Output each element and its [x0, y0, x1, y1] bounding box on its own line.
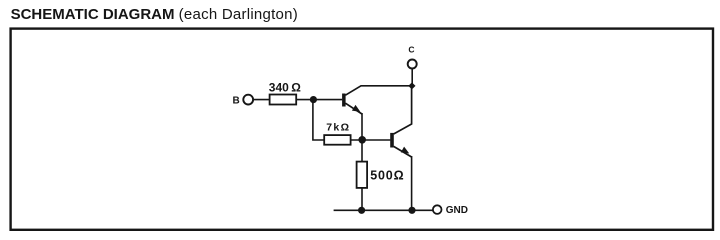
title SCHEMATIC DIAGRAM (each Darlington)	[11, 6, 298, 23]
wire resistor 340 to Q1 base	[296, 99, 342, 101]
transistor Q2 base bar	[390, 133, 394, 148]
label C	[408, 44, 414, 54]
svg-text:B: B	[233, 96, 240, 107]
node junction dot rail right	[408, 207, 415, 214]
node B terminal circle	[243, 95, 253, 105]
transistor Q1 base bar	[342, 94, 346, 107]
label 340 ohm value	[269, 81, 301, 95]
svg-text:340 Ω: 340 Ω	[269, 81, 301, 95]
label GND	[446, 205, 468, 216]
wire Q1 emitter down to 500 ohm	[361, 113, 363, 162]
transistor Q2 collector arm	[394, 86, 412, 134]
wire B terminal to resistor 340	[253, 99, 270, 101]
wire C terminal down to collector junction	[411, 69, 413, 86]
wire 500 ohm down to ground rail	[361, 188, 363, 210]
label 7k ohm value	[326, 122, 350, 134]
wire ground rail	[334, 209, 433, 211]
node junction dot at base wire	[310, 96, 317, 103]
transistor Q1 emitter arm	[345, 103, 362, 114]
svg-text:GND: GND	[446, 205, 468, 216]
wire junction down and right to resistor 7k	[313, 100, 325, 140]
label B	[233, 96, 240, 107]
transistor Q2 emitter arm	[394, 146, 412, 157]
wire Q2 emitter down to ground rail	[411, 156, 413, 210]
wire resistor 7k to Q2 base	[351, 139, 391, 141]
label 500 ohm value	[370, 168, 404, 182]
node junction dot at 7k output	[358, 136, 366, 144]
resistor 7k ohm	[324, 135, 350, 145]
resistor 500 ohm	[357, 162, 368, 188]
node collector junction diamond	[408, 82, 415, 89]
transistor Q1 collector arm	[345, 86, 412, 95]
node C terminal circle	[408, 60, 417, 69]
svg-text:C: C	[408, 44, 414, 54]
svg-text:7kΩ: 7kΩ	[326, 122, 350, 134]
node junction dot rail left	[358, 207, 365, 214]
resistor 340 ohm	[270, 95, 297, 105]
svg-text:500Ω: 500Ω	[370, 168, 404, 182]
svg-text:SCHEMATIC DIAGRAM (each Darlin: SCHEMATIC DIAGRAM (each Darlington)	[11, 6, 298, 23]
node GND terminal circle	[433, 205, 442, 214]
